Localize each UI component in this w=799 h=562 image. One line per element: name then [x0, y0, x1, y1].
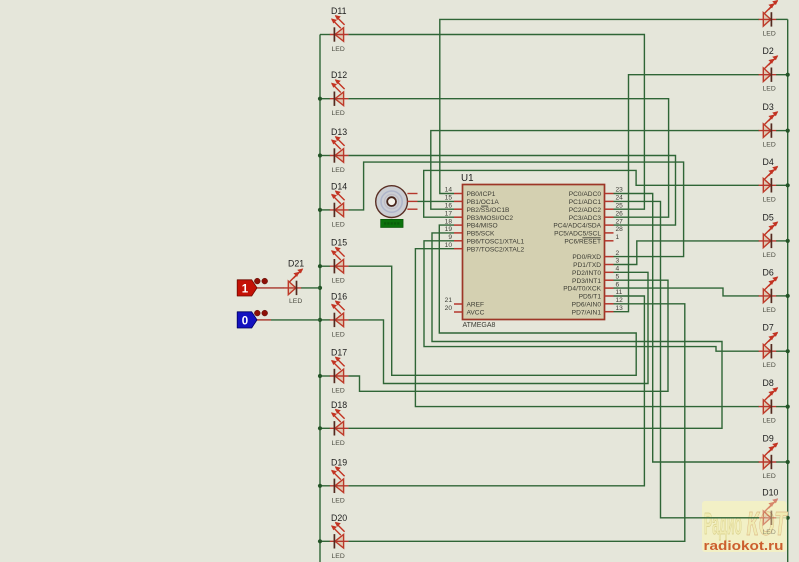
overline SS — [481, 205, 488, 207]
junction D9 row — [786, 460, 790, 464]
svg-text:D5: D5 — [763, 212, 774, 222]
LED D19 — [330, 457, 349, 504]
pin 10 PB7/TOSC2/XTAL2 — [445, 242, 525, 253]
wire bus to D16 cathode — [320, 319, 330, 321]
pin 17 PB3/MOSI/OC2 — [445, 210, 514, 221]
junction D6 row — [786, 294, 790, 298]
wire bus to D15 cathode — [320, 265, 330, 267]
LED D12 — [330, 70, 349, 117]
svg-text:LED: LED — [763, 252, 776, 259]
svg-text:1: 1 — [616, 234, 620, 241]
LED D18 — [330, 400, 349, 447]
net PC0 pin23 to D9 — [614, 194, 760, 463]
wire D1 cathode to bus — [776, 18, 788, 20]
LED D3 — [759, 102, 779, 149]
svg-text:PC2/ADC2: PC2/ADC2 — [569, 207, 602, 214]
LED D17 — [330, 348, 349, 395]
LED D7 — [759, 323, 779, 370]
pin 4 PD2/INT0 — [572, 266, 619, 277]
logic state probe 1 (red) — [237, 278, 267, 296]
svg-text:16: 16 — [445, 202, 453, 209]
junction D19 row — [318, 484, 322, 488]
wire bus to D18 cathode — [320, 427, 330, 429]
svg-text:Радио: Радио — [704, 506, 742, 541]
pin 3 PD1/TXD — [573, 258, 619, 269]
net PD6 pin12 to D20 — [348, 304, 685, 542]
svg-text:D8: D8 — [763, 378, 774, 388]
pin 28 PC5/ADC5/SCL — [554, 226, 623, 237]
LED D6 — [759, 267, 779, 314]
net PB2 pin16 to D3 — [431, 131, 759, 210]
svg-text:LED: LED — [332, 221, 345, 228]
svg-text:D9: D9 — [763, 434, 774, 444]
pin 24 PC1/ADC1 — [569, 195, 623, 206]
LED D1 — [759, 0, 779, 37]
svg-text:0: 0 — [242, 315, 248, 327]
svg-text:PC4/ADC4/SDA: PC4/ADC4/SDA — [553, 223, 601, 230]
wire left cathode bus vertical — [319, 35, 321, 562]
chip U1 ATMEGA8 body — [463, 185, 605, 320]
net PC3 pin26 to D12 — [348, 99, 668, 218]
junction D10 row — [786, 516, 790, 520]
net PC2 pin25 to D11 — [348, 35, 644, 210]
net PD3 pin5 to D17 — [348, 280, 668, 391]
svg-text:PD7/AIN1: PD7/AIN1 — [572, 309, 602, 316]
wire D9 cathode to bus — [776, 461, 788, 463]
watermark panel — [702, 501, 787, 552]
pin 26 PC3/ADC3 — [569, 210, 623, 221]
LED D21 — [284, 258, 304, 305]
svg-text:PB6/TOSC1/XTAL1: PB6/TOSC1/XTAL1 — [467, 238, 525, 245]
junction D2 row — [786, 73, 790, 77]
net PB7 pin10 to D8 — [415, 249, 759, 407]
junction D8 row — [786, 405, 790, 409]
pin 5 PD3/INT1 — [572, 273, 619, 284]
net PB6 pin9 to D7 — [424, 241, 759, 351]
svg-text:D18: D18 — [331, 400, 347, 410]
net PB5 pin19 to D18 — [348, 233, 722, 428]
svg-text:PC5/ADC5/SCL: PC5/ADC5/SCL — [554, 231, 601, 238]
net PC4 pin27 to D13 — [348, 156, 675, 226]
junction D16 row — [318, 318, 322, 322]
svg-text:PC3/ADC3: PC3/ADC3 — [569, 215, 602, 222]
LED D4 — [759, 157, 779, 204]
net PD1 pin3 to D5 — [614, 241, 760, 265]
svg-text:LED: LED — [332, 278, 345, 285]
svg-text:13: 13 — [616, 305, 624, 312]
svg-text:ATMEGA8: ATMEGA8 — [463, 322, 496, 329]
LED D9 — [759, 434, 779, 481]
wire probe0 stub — [257, 319, 272, 321]
svg-text:9: 9 — [448, 234, 452, 241]
wire bus to D14 cathode — [320, 209, 330, 211]
svg-text:PD5/T1: PD5/T1 — [579, 294, 602, 301]
svg-text:20: 20 — [445, 305, 453, 312]
svg-text:D21: D21 — [288, 258, 304, 268]
overline RESET — [582, 237, 600, 239]
svg-text:PC0/ADC0: PC0/ADC0 — [569, 191, 602, 198]
svg-text:PB0/ICP1: PB0/ICP1 — [467, 191, 496, 198]
pin 11 PD5/T1 — [579, 289, 623, 300]
svg-text:LED: LED — [763, 307, 776, 314]
svg-text:LED: LED — [332, 167, 345, 174]
svg-text:PB1/OC1A: PB1/OC1A — [467, 199, 500, 206]
pin 2 PD0/RXD — [572, 250, 619, 261]
svg-text:D14: D14 — [331, 181, 347, 191]
svg-text:21: 21 — [445, 297, 453, 304]
LED D16 — [330, 291, 349, 338]
svg-text:2: 2 — [616, 250, 620, 257]
junction D14 row — [318, 208, 322, 212]
junction D17 row — [318, 374, 322, 378]
junction D5 row — [786, 239, 790, 243]
net PD7 pin13 to D2 — [614, 75, 760, 312]
svg-text:D10: D10 — [762, 488, 778, 498]
svg-text:LED: LED — [763, 418, 776, 425]
svg-text:12: 12 — [616, 297, 624, 304]
net PB4 pin18 to D15 — [348, 225, 636, 375]
pin 25 PC2/ADC2 — [569, 202, 623, 213]
junction D15 row — [318, 264, 322, 268]
svg-text:LED: LED — [763, 30, 776, 37]
svg-text:LED: LED — [332, 553, 345, 560]
LED D13 — [330, 127, 349, 174]
svg-text:D17: D17 — [331, 348, 347, 358]
junction D3 row — [786, 129, 790, 133]
junction D18 row — [318, 426, 322, 430]
wire D8 cathode to bus — [776, 406, 788, 408]
svg-text:LED: LED — [289, 298, 302, 305]
wire bus to D17 cathode — [320, 375, 330, 377]
wire bus to D11 cathode — [320, 34, 330, 36]
svg-text:PD0/RXD: PD0/RXD — [572, 254, 601, 261]
svg-text:D12: D12 — [331, 70, 347, 80]
LED D10 — [759, 498, 779, 536]
net PD5 pin11 to D19 — [348, 296, 644, 486]
LED D15 — [330, 238, 349, 285]
wire D21 cathode to bus — [301, 287, 320, 289]
net PD4 pin6 to D6 — [614, 288, 760, 296]
pin 20 AVCC — [445, 305, 485, 316]
wire D10 cathode to bus — [776, 517, 788, 519]
net PB1 pin15 to motor — [418, 200, 455, 202]
svg-text:18: 18 — [445, 218, 453, 225]
LED D14 — [330, 181, 349, 228]
pin 6 PD4/T0/XCK — [563, 281, 619, 292]
svg-text:LED: LED — [332, 110, 345, 117]
svg-text:D7: D7 — [763, 323, 774, 333]
svg-text:LED: LED — [763, 362, 776, 369]
net PB3 pin17 to D4 — [424, 170, 760, 217]
pin 9 PB6/TOSC1/XTAL1 — [448, 234, 524, 245]
svg-text:27: 27 — [616, 218, 624, 225]
svg-text:PB2/SS/OC1B: PB2/SS/OC1B — [467, 207, 510, 214]
svg-text:LED: LED — [763, 473, 776, 480]
junction D13 row — [318, 153, 322, 157]
svg-text:LED: LED — [332, 440, 345, 447]
svg-text:КОТ: КОТ — [747, 505, 789, 542]
svg-text:AVCC: AVCC — [467, 310, 485, 317]
svg-text:PD2/INT0: PD2/INT0 — [572, 270, 601, 277]
svg-text:D6: D6 — [763, 267, 774, 277]
pin 15 PB1/OC1A — [445, 195, 500, 206]
junction D7 row — [786, 349, 790, 353]
pin 1 PC6/RESET — [564, 234, 619, 245]
wire bus to D20 cathode — [320, 540, 330, 542]
net PC1 pin24 to D10 — [614, 201, 760, 517]
junction D20 row — [318, 539, 322, 543]
svg-text:PC1/ADC1: PC1/ADC1 — [569, 199, 602, 206]
svg-text:5: 5 — [616, 273, 620, 280]
pin 23 PC0/ADC0 — [569, 187, 623, 198]
svg-text:14: 14 — [445, 187, 453, 194]
pin 16 PB2/SS/OC1B — [445, 202, 510, 213]
servo motor — [376, 186, 408, 218]
svg-text:PB4/MISO: PB4/MISO — [467, 223, 498, 230]
wire D6 cathode to bus — [776, 295, 788, 297]
junction D4 row — [786, 183, 790, 187]
LED D5 — [759, 212, 779, 259]
pin 14 PB0/ICP1 — [445, 187, 496, 198]
svg-text:4: 4 — [616, 266, 620, 273]
svg-text:11: 11 — [616, 289, 623, 296]
svg-text:PB5/SCK: PB5/SCK — [467, 231, 495, 238]
wire bus to D13 cathode — [320, 155, 330, 157]
svg-text:PD3/INT1: PD3/INT1 — [572, 278, 601, 285]
wire probe1 to D21 anode — [257, 287, 285, 289]
wire D2 cathode to bus — [776, 74, 788, 76]
svg-text:23: 23 — [616, 187, 624, 194]
pin 19 PB5/SCK — [445, 226, 495, 237]
pin 13 PD7/AIN1 — [572, 305, 623, 316]
wire bus to D12 cathode — [320, 98, 330, 100]
svg-text:U1: U1 — [461, 173, 474, 184]
svg-text:D19: D19 — [331, 457, 347, 467]
svg-text:LED: LED — [763, 86, 776, 93]
pin 27 PC4/ADC4/SDA — [553, 218, 623, 229]
svg-text:D2: D2 — [763, 46, 774, 56]
servo base plate — [381, 219, 404, 227]
svg-text:LED: LED — [763, 529, 776, 536]
svg-text:24: 24 — [616, 195, 624, 202]
wire D10 row over watermark — [702, 517, 759, 519]
svg-text:D3: D3 — [763, 102, 774, 112]
junction D21 row — [318, 286, 322, 290]
net PB0 pin14 to D1 — [440, 19, 759, 193]
svg-text:D13: D13 — [331, 127, 347, 137]
svg-text:17: 17 — [445, 210, 453, 217]
wire D4 cathode to bus — [776, 184, 788, 186]
svg-text:25: 25 — [616, 202, 624, 209]
svg-text:D20: D20 — [331, 513, 347, 523]
LED D8 — [759, 378, 779, 425]
wire D3 cathode to bus — [776, 130, 788, 132]
svg-text:LED: LED — [332, 497, 345, 504]
svg-text:3: 3 — [616, 258, 620, 265]
wire right cathode bus vertical — [787, 19, 789, 562]
svg-text:26: 26 — [616, 210, 624, 217]
LED D20 — [330, 513, 349, 560]
svg-text:15: 15 — [445, 195, 453, 202]
svg-text:10: 10 — [445, 242, 453, 249]
svg-text:PB7/TOSC2/XTAL2: PB7/TOSC2/XTAL2 — [467, 246, 525, 253]
net PD2 pin4 to D16 — [348, 272, 648, 383]
svg-text:LED: LED — [332, 46, 345, 53]
junction D12 row — [318, 97, 322, 101]
LED D11 — [330, 6, 349, 53]
svg-text:AREF: AREF — [467, 302, 485, 309]
svg-text:28: 28 — [616, 226, 624, 233]
svg-text:PD1/TXD: PD1/TXD — [573, 262, 601, 269]
motor pin stubs — [407, 193, 417, 195]
svg-text:D16: D16 — [331, 291, 347, 301]
svg-text:LED: LED — [332, 388, 345, 395]
pin 21 AREF — [445, 297, 484, 308]
svg-text:PD4/T0/XCK: PD4/T0/XCK — [563, 286, 601, 293]
pin 18 PB4/MISO — [445, 218, 498, 229]
svg-text:LED: LED — [763, 142, 776, 149]
svg-text:PB3/MOSI/OC2: PB3/MOSI/OC2 — [467, 215, 514, 222]
wire D7 cathode to bus — [776, 350, 788, 352]
net PD0 pin2 to D14 — [348, 162, 683, 257]
svg-text:LED: LED — [763, 196, 776, 203]
svg-text:PD6/AIN0: PD6/AIN0 — [572, 301, 602, 308]
svg-text:radiokot.ru: radiokot.ru — [704, 538, 784, 553]
wire bus to D19 cathode — [320, 485, 330, 487]
svg-text:D15: D15 — [331, 238, 347, 248]
svg-text:6: 6 — [616, 281, 620, 288]
svg-text:LED: LED — [332, 331, 345, 338]
logic state probe 0 (blue) — [237, 310, 267, 328]
svg-text:PC6/RESET: PC6/RESET — [564, 238, 601, 245]
pin 12 PD6/AIN0 — [572, 297, 623, 308]
svg-text:D4: D4 — [763, 157, 774, 167]
LED D2 — [759, 46, 779, 92]
svg-text:1: 1 — [242, 283, 249, 295]
svg-text:19: 19 — [445, 226, 453, 233]
wire probe0 to bus — [271, 319, 320, 321]
wire D5 cathode to bus — [776, 240, 788, 242]
svg-text:D11: D11 — [331, 6, 347, 16]
